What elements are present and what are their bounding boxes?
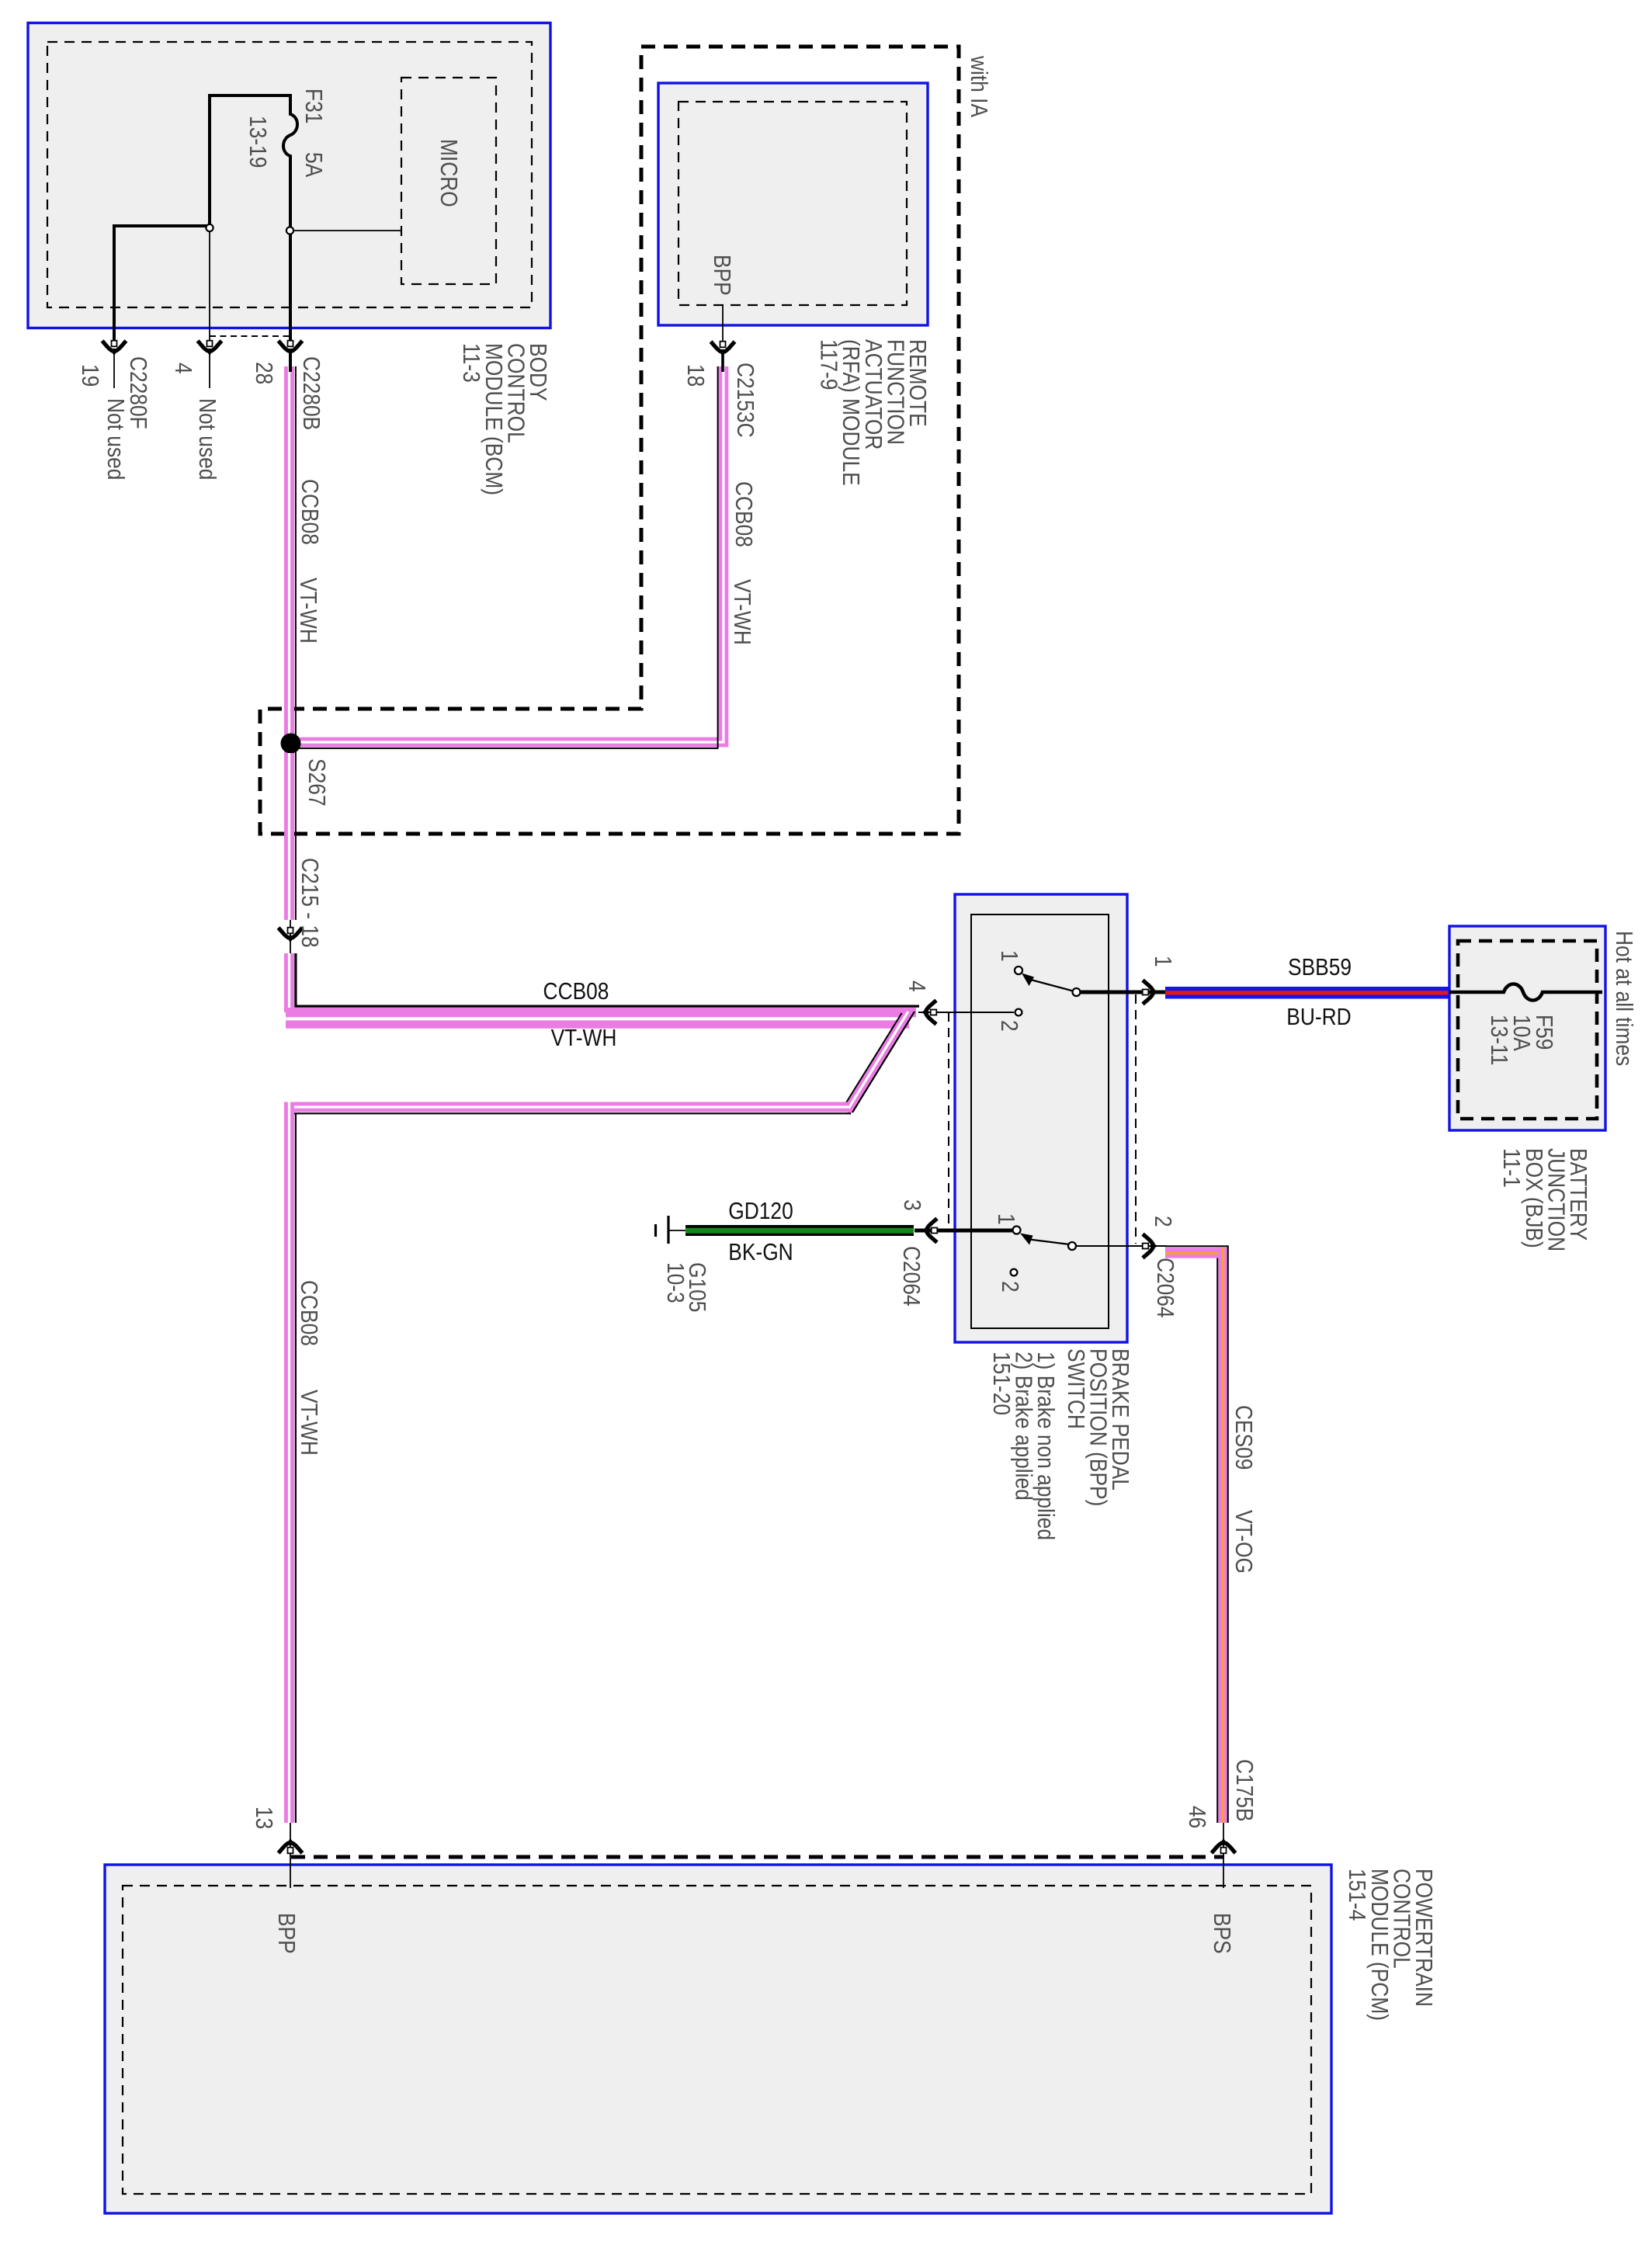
contact bottom switch pos2 [1011,1269,1018,1276]
wire pin46 centre stub [1223,1823,1224,1888]
switch blade top [1028,979,1074,991]
RFA module box [658,83,928,325]
svg-text:VT-WH: VT-WH [728,579,755,645]
BCM module box [28,23,550,328]
contact top switch pos2 [1015,1009,1022,1016]
svg-text:Not used: Not used [193,398,220,480]
svg-text:C2153C: C2153C [731,363,758,438]
contact bottom switch pivot pos1 [1013,1227,1021,1234]
fuse F31 [283,95,297,340]
connector arrow pin 4 switch [921,1001,937,1025]
switch blade bottom [1026,1239,1070,1244]
svg-text:CCB08: CCB08 [730,481,756,547]
svg-text:MICRO: MICRO [435,139,461,207]
svg-text:Not used: Not used [102,398,128,480]
wire CCB08 BCM vertical band [284,366,294,920]
connector arrow pin 4 [198,341,222,356]
svg-text:BPP: BPP [708,255,734,296]
svg-text:F31: F31 [300,88,326,123]
svg-text:1: 1 [1149,956,1175,967]
PCM inner dashed border [123,1886,1311,2194]
connector arrow C2153C pin 18 [711,342,735,357]
wire pin19 stub [113,355,115,388]
svg-text:BK-GN: BK-GN [728,1239,793,1265]
svg-text:C215 - 18: C215 - 18 [296,858,322,948]
svg-text:CCB08: CCB08 [295,1280,321,1346]
svg-text:19: 19 [76,364,102,387]
wire pin2 thin [1077,1245,1166,1247]
connector arrow PCM pin 46 [1212,1838,1236,1854]
node BCM left junction [206,224,213,231]
connector arrow pin 19 [102,341,127,356]
svg-text:SBB59: SBB59 [1288,954,1352,980]
wire CCB08 below S267 band [284,753,294,920]
wire CCB08 upper horizontal black line [296,953,919,1006]
contact top switch pivot pos1 [1015,967,1022,974]
MICRO dashed box [401,78,496,284]
with IA dashed region [260,47,959,834]
RFA inner dashed border [678,102,907,305]
svg-text:BU-RD: BU-RD [1286,1004,1351,1030]
wire CCB08 lower horizontal black line [284,1112,851,1114]
wire pin4 into switch thin [918,1012,1014,1013]
contact bottom switch common [1068,1242,1076,1250]
wire CES09 VT-OG horizontal band [1165,1248,1227,1258]
splice S267 [281,734,301,754]
svg-text:10-3: 10-3 [661,1262,688,1303]
dashed connector line C2064 right [1135,994,1137,1244]
wire BCM left vertical [208,94,211,226]
connector arrow pin 28 [279,341,303,356]
wire CCB08 upper horizontal double band [286,1008,916,1029]
svg-text:S267: S267 [303,758,329,807]
PCM module box [105,1865,1331,2213]
svg-text:C2064: C2064 [1151,1258,1178,1318]
BJB inner dashed border [1458,941,1597,1119]
connector arrow C215-18 [279,928,303,943]
svg-text:1: 1 [995,950,1022,962]
dashed connector line pins 4-28 [210,335,291,337]
wire C215 centre stub [290,920,291,959]
wire BCM micro horizontal thin [293,230,401,231]
svg-text:2: 2 [996,1281,1022,1293]
svg-text:2: 2 [995,1020,1022,1032]
wire BCM pin4 vertical thin [209,230,210,340]
wire BCM pin19 vertical [113,224,116,340]
wire pin18 stub [721,353,724,372]
wire CES09 VT-OG vertical band [1218,1248,1227,1823]
connector arrow PCM pin 13 [279,1838,303,1854]
BPP switch inner rect [971,914,1109,1328]
wire CCB08 diagonal black line [852,1012,914,1112]
svg-text:13-11: 13-11 [1485,1015,1511,1065]
wire CCB08 lower horizontal band [286,1102,849,1112]
svg-text:GD120: GD120 [728,1198,793,1224]
svg-text:CCB08: CCB08 [296,479,322,545]
wire CCB08 diagonal left black edge [843,1013,902,1108]
wire pin13 centre stub [290,1823,291,1888]
wire CCB08 PCM vertical band [284,1102,294,1824]
svg-text:1: 1 [992,1213,1019,1225]
svg-text:C175B: C175B [1230,1759,1257,1822]
svg-text:2: 2 [1149,1216,1175,1227]
wire CCB08 RFA black line [290,366,718,748]
contact top switch common [1073,988,1081,996]
connector arrow pin 1 [1143,980,1158,1005]
svg-text:VT-WH: VT-WH [294,578,321,644]
wire CCB08 diagonal jog [846,1012,908,1112]
wire pin3 thick [914,1229,1012,1233]
svg-text:4: 4 [169,363,196,374]
wire CCB08 PCM vertical black line [295,1113,297,1823]
wire pin28 stub [289,353,292,372]
wire CCB08 below C215 band [284,953,294,1012]
svg-text:C2280B: C2280B [297,356,324,430]
BCM inner dashed border [47,42,532,307]
svg-text:VT-WH: VT-WH [295,1390,321,1456]
svg-text:BPP: BPP [272,1913,299,1954]
svg-text:4: 4 [903,980,929,992]
wire CCB08 RFA vertical band [290,366,724,742]
BPP switch box [955,894,1127,1342]
svg-text:BPS: BPS [1208,1913,1234,1954]
wire CES09 left black edge [1216,1258,1218,1824]
fuse F59 [1449,984,1602,1001]
wire GD120 BK-GN band [685,1225,914,1236]
svg-text:CCB08: CCB08 [543,978,609,1005]
svg-text:13-19: 13-19 [244,116,270,168]
svg-text:CES09: CES09 [1230,1405,1256,1470]
svg-text:VT-OG: VT-OG [1230,1510,1256,1574]
connector arrow pin 2 [1143,1234,1158,1258]
wire CES09 horizontal black line [1165,1246,1228,1823]
svg-text:VT-WH: VT-WH [551,1025,617,1051]
dashed connector line C2064 left [948,1012,949,1228]
dashed connector line C175 [291,1855,1224,1859]
wire BCM top horizontal [208,94,292,97]
node BCM right junction [286,227,293,234]
svg-text:5A: 5A [300,152,326,178]
svg-text:Hot at all times: Hot at all times [1610,931,1636,1066]
svg-text:13: 13 [250,1806,276,1829]
svg-text:18: 18 [682,364,708,387]
wire ground stub [669,1230,685,1231]
svg-text:with IA: with IA [965,55,991,118]
wire pin1 thick [1081,991,1167,994]
wire pin4 stub [209,355,210,388]
svg-text:3: 3 [898,1199,925,1211]
svg-text:46: 46 [1183,1806,1209,1828]
svg-text:28: 28 [250,362,276,384]
wire SBB59 BU-RD band [1165,987,1449,999]
svg-text:C2064: C2064 [897,1246,924,1307]
ground symbol G105 [656,1216,669,1244]
wire BCM pin19 horizontal [113,224,210,227]
wire CCB08 BCM black line [295,366,297,920]
BJB box [1449,926,1605,1130]
connector arrow pin 3 [922,1219,938,1243]
wire RFA pin stub [722,305,724,342]
